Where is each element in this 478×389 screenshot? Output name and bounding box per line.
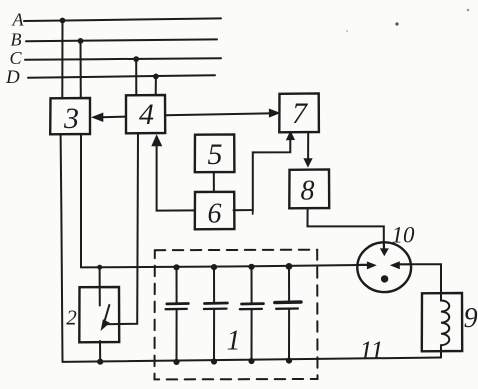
capacitor C2 bbox=[204, 264, 228, 365]
svg-text:6: 6 bbox=[208, 199, 222, 230]
svg-text:11: 11 bbox=[359, 336, 383, 365]
wire block 3 left lead to bottom bus bbox=[61, 134, 63, 362]
svg-text:4: 4 bbox=[139, 98, 154, 131]
capacitor C4 bbox=[275, 263, 301, 364]
arrow top into connector bbox=[383, 242, 385, 250]
scan speck bbox=[395, 22, 398, 25]
arrow block 7 to block 8 bbox=[303, 132, 312, 167]
node C tap bbox=[133, 56, 139, 62]
connector pin dot bbox=[381, 275, 388, 282]
wire block 6 to block 7 bbox=[234, 137, 291, 210]
arrow block 4 to block 7 bbox=[165, 109, 280, 118]
bus C bbox=[25, 58, 221, 60]
svg-text:9: 9 bbox=[464, 303, 478, 334]
dashed group 1 boundary bbox=[155, 250, 318, 380]
regulator 2 box bbox=[79, 287, 119, 342]
wire block 3 right lead to main bus bbox=[80, 134, 82, 267]
wire inductor 9 to bottom bus bbox=[440, 351, 442, 357]
scan speck bbox=[346, 30, 348, 32]
wire block 6 to block 4 bbox=[157, 138, 195, 211]
node B tap bbox=[78, 38, 84, 44]
scan speck bbox=[467, 9, 470, 12]
junction main bus / regulator 2 bbox=[97, 265, 102, 270]
connector 10 bbox=[357, 242, 411, 292]
arrow into block 4 bottom bbox=[151, 134, 162, 146]
block 3 bbox=[50, 98, 90, 135]
svg-text:C: C bbox=[10, 48, 23, 68]
svg-text:5: 5 bbox=[208, 138, 223, 171]
capacitor C3 bbox=[240, 264, 264, 364]
svg-text:A: A bbox=[12, 10, 25, 30]
wire block 4 to regulator 2 bbox=[104, 133, 138, 324]
svg-text:3: 3 bbox=[63, 102, 79, 135]
wire connector 10 to inductor 9 bbox=[409, 264, 442, 293]
node D tap bbox=[153, 74, 159, 80]
main bus to connector 10 bbox=[81, 265, 360, 267]
wire bus into regulator 2 bbox=[99, 267, 101, 305]
bus B bbox=[26, 39, 217, 41]
block 6 bbox=[195, 192, 235, 230]
svg-text:10: 10 bbox=[392, 223, 416, 248]
arrow left into connector bbox=[360, 264, 370, 266]
corner overshoot bbox=[252, 210, 254, 214]
node A tap bbox=[60, 18, 66, 24]
capacitor C1 bbox=[166, 264, 189, 365]
arrow right into connector bbox=[400, 263, 409, 265]
arrow into regulator 2 bbox=[101, 305, 110, 331]
inductor 9 box bbox=[422, 293, 462, 351]
svg-text:7: 7 bbox=[292, 97, 309, 130]
bottom bus bbox=[63, 358, 442, 362]
junction regulator 2 / bottom bus bbox=[97, 359, 103, 365]
wire D to block 4 bbox=[155, 76, 157, 95]
svg-text:8: 8 bbox=[301, 176, 315, 207]
arrow into block 7 bottom bbox=[286, 131, 295, 141]
wire regulator 2 to bottom bus bbox=[99, 341, 101, 362]
arrow block 4 to block 3 bbox=[91, 113, 126, 123]
block 8 bbox=[289, 169, 329, 208]
wire A to block 3 bbox=[61, 21, 63, 99]
wire block 8 to connector 10 bbox=[308, 208, 384, 242]
svg-text:B: B bbox=[11, 29, 22, 49]
wire C to block 4 bbox=[135, 59, 137, 95]
wire block 5 to block 6 bbox=[213, 172, 215, 192]
svg-text:1: 1 bbox=[227, 326, 241, 357]
block 5 bbox=[195, 134, 235, 172]
bus D bbox=[28, 75, 215, 77]
block 4 bbox=[126, 95, 165, 133]
wire B to block 3 bbox=[80, 41, 82, 98]
svg-text:D: D bbox=[5, 67, 20, 88]
block 7 bbox=[279, 93, 319, 132]
bus A bbox=[24, 18, 221, 21]
svg-text:2: 2 bbox=[66, 305, 77, 329]
inductor 9 coil bbox=[441, 293, 449, 351]
